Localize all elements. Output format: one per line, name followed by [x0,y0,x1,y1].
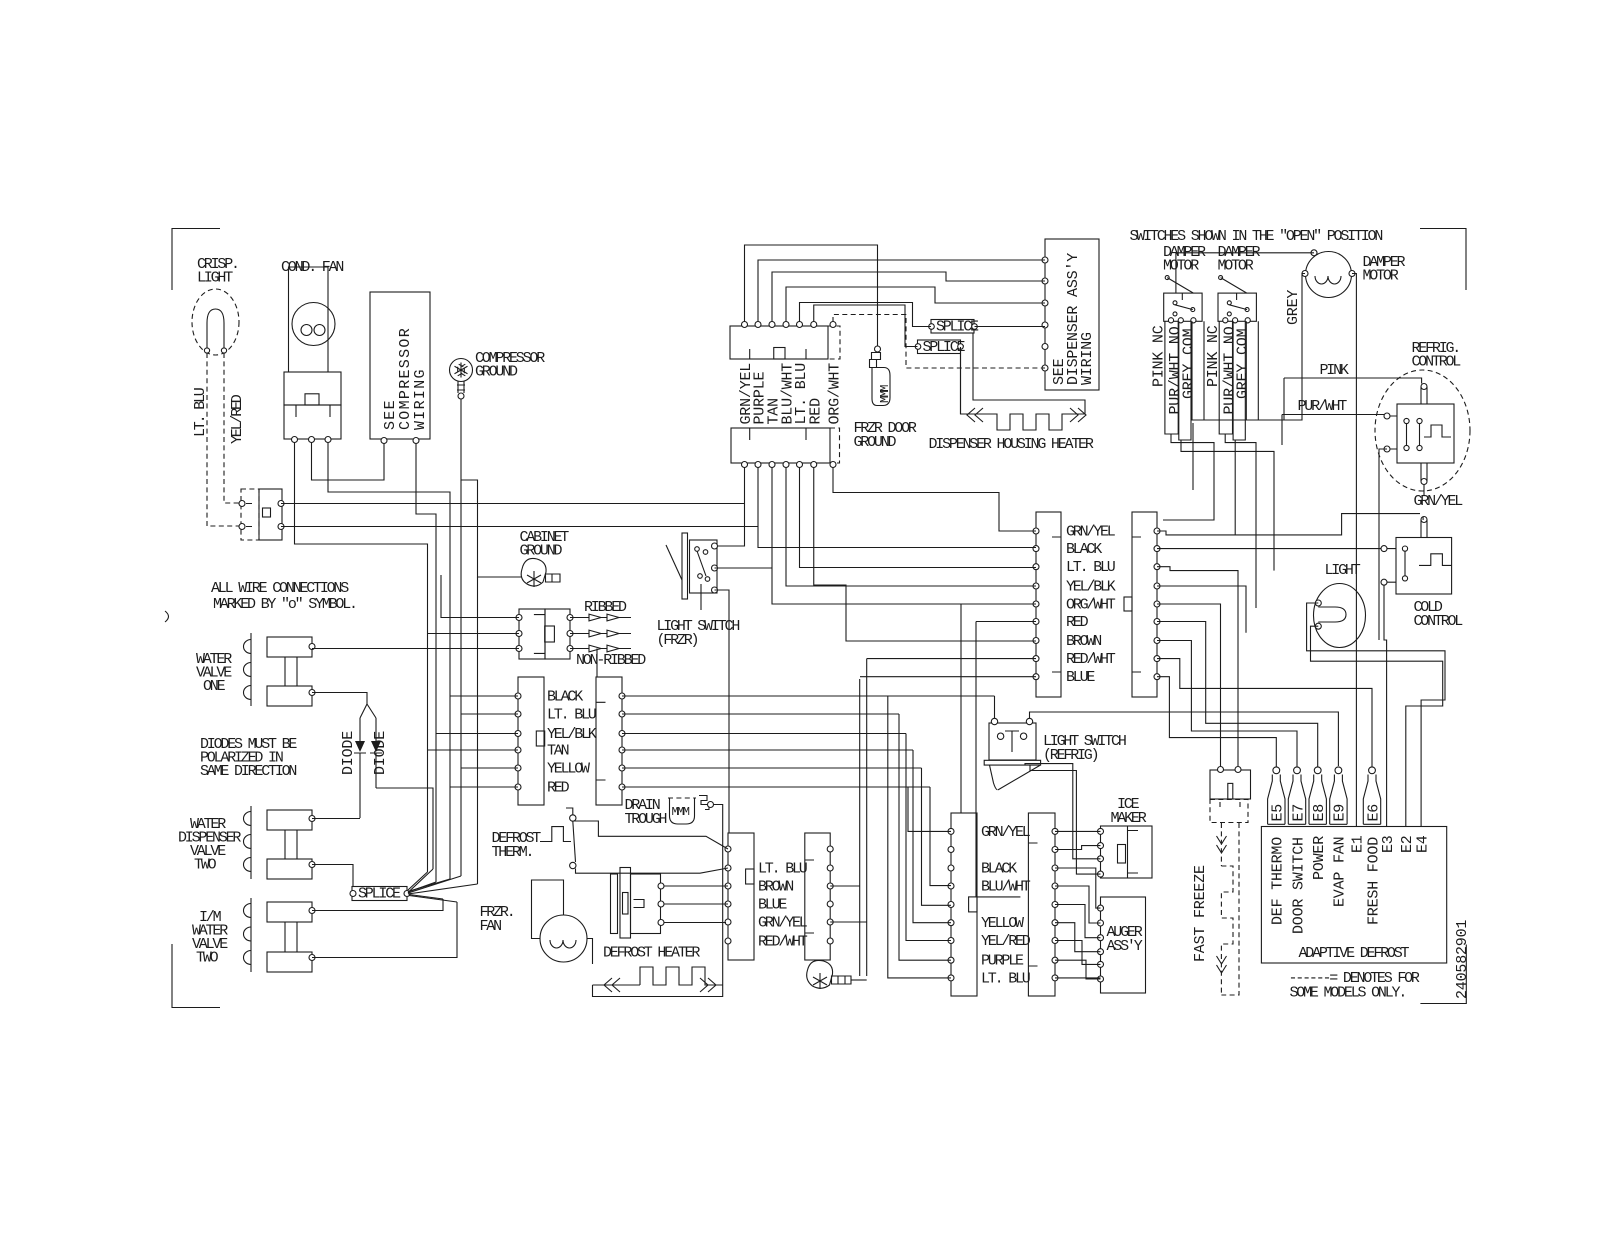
svg-text:GRN/YEL: GRN/YEL [1066,524,1116,541]
svg-text:MAKER: MAKER [1111,810,1147,827]
svg-text:GROUND: GROUND [520,543,563,560]
svg-text:DOOR SWITCH: DOOR SWITCH [1290,837,1307,934]
svg-text:LT. BLU: LT. BLU [758,861,807,878]
svg-text:MMM: MMM [672,805,690,819]
svg-text:BLUE: BLUE [758,897,787,914]
svg-text:DISPENSER HOUSING HEATER: DISPENSER HOUSING HEATER [929,436,1094,453]
svg-text:ADAPTIVE DEFROST: ADAPTIVE DEFROST [1299,945,1410,962]
svg-text:LT. BLU: LT. BLU [547,707,596,724]
svg-text:POWER: POWER [1311,836,1328,880]
svg-text:GREY: GREY [1285,290,1302,325]
svg-text:MOTOR: MOTOR [1163,258,1199,275]
svg-text:RED/WHT: RED/WHT [758,934,808,951]
svg-text:MOTOR: MOTOR [1363,268,1399,285]
svg-text:LT. BLU: LT. BLU [192,388,209,437]
svg-text:GROUND: GROUND [854,434,897,451]
svg-text:SWITCHES SHOWN IN THE "OPEN" P: SWITCHES SHOWN IN THE "OPEN" POSITION [1130,228,1383,245]
svg-text:LIGHT: LIGHT [197,270,233,287]
svg-text:BROWN: BROWN [758,879,793,896]
svg-text:SOME MODELS ONLY.: SOME MODELS ONLY. [1290,985,1406,1002]
svg-text:GRN/YEL: GRN/YEL [1414,493,1464,510]
svg-text:RED: RED [547,780,570,797]
svg-text:BLACK: BLACK [981,861,1017,878]
svg-text:GREY COM: GREY COM [1181,328,1198,399]
svg-text:YEL/BLK: YEL/BLK [547,726,597,743]
svg-text:E9: E9 [1332,804,1349,822]
svg-text:E7: E7 [1290,804,1307,822]
svg-text:TWO: TWO [196,950,219,967]
svg-text:GROUND: GROUND [475,364,518,381]
svg-text:YELLOW: YELLOW [981,915,1024,932]
svg-text:GRN/YEL: GRN/YEL [981,824,1031,841]
svg-text:WIRING: WIRING [1079,332,1096,385]
svg-text:DEFROST HEATER: DEFROST HEATER [603,945,700,962]
svg-text:YELLOW: YELLOW [547,761,590,778]
svg-text:WIRING: WIRING [412,368,429,430]
svg-text:LT. BLU: LT. BLU [1066,559,1115,576]
svg-text:E6: E6 [1365,804,1382,822]
svg-text:E3: E3 [1380,835,1397,853]
svg-text:THERM.: THERM. [492,844,533,861]
svg-text:FAST FREEZE: FAST FREEZE [1192,865,1209,962]
svg-text:LT. BLU: LT. BLU [981,970,1030,987]
svg-text:ONE: ONE [203,678,226,695]
svg-text:RED: RED [1066,614,1089,631]
svg-text:NON-RIBBED: NON-RIBBED [576,652,646,669]
svg-text:ASS'Y: ASS'Y [1107,938,1143,955]
svg-text:PINK NC: PINK NC [1151,325,1168,387]
svg-text:CONTROL: CONTROL [1414,613,1464,630]
svg-text:DEF THERMO: DEF THERMO [1270,837,1287,925]
svg-text:TWO: TWO [194,857,217,874]
svg-text:GREY COM: GREY COM [1235,328,1252,399]
svg-text:LIGHT: LIGHT [1325,562,1361,579]
svg-text:(REFRIG): (REFRIG) [1043,747,1098,764]
svg-text:BROWN: BROWN [1066,633,1101,650]
svg-text:PURPLE: PURPLE [981,953,1024,970]
svg-text:EVAP FAN: EVAP FAN [1332,837,1349,907]
svg-text:BLUE: BLUE [1066,669,1095,686]
svg-text:TAN: TAN [547,743,569,760]
svg-text:GRN/YEL: GRN/YEL [758,915,808,932]
svg-text:YEL/RED: YEL/RED [981,933,1031,950]
svg-text:MARKED BY "o" SYMBOL.: MARKED BY "o" SYMBOL. [213,596,356,613]
svg-text:(FRZR): (FRZR) [657,632,698,649]
svg-text:CONTROL: CONTROL [1412,354,1462,371]
svg-text:SAME DIRECTION: SAME DIRECTION [200,763,296,780]
svg-text:MOTOR: MOTOR [1218,258,1254,275]
svg-text:MMM: MMM [878,385,892,403]
svg-text:BLACK: BLACK [547,689,583,706]
svg-text:E4: E4 [1414,835,1431,853]
svg-text:E5: E5 [1270,804,1287,822]
svg-text:FAN: FAN [480,918,502,935]
svg-text:PUR/WHT: PUR/WHT [1298,398,1348,415]
svg-text:PINK: PINK [1320,362,1349,379]
svg-text:RED/WHT: RED/WHT [1066,651,1116,668]
svg-text:RIBBED: RIBBED [584,599,627,616]
svg-text:240582901: 240582901 [1454,920,1471,999]
svg-text:SPLICE: SPLICE [358,886,401,903]
svg-text:ALL WIRE CONNECTIONS: ALL WIRE CONNECTIONS [211,580,349,597]
svg-text:BLACK: BLACK [1066,541,1102,558]
svg-text:ORG/WHT: ORG/WHT [1066,597,1116,614]
svg-text:TROUGH: TROUGH [625,811,667,828]
svg-text:YEL/RED: YEL/RED [229,394,246,444]
svg-text:E8: E8 [1311,804,1328,822]
svg-text:RED: RED [807,398,824,425]
svg-text:PINK NC: PINK NC [1205,325,1222,387]
svg-text:ORG/WHT: ORG/WHT [827,363,844,425]
svg-text:E1: E1 [1350,835,1367,853]
svg-text:YEL/BLK: YEL/BLK [1066,579,1116,596]
svg-text:BLU/WHT: BLU/WHT [981,879,1031,896]
